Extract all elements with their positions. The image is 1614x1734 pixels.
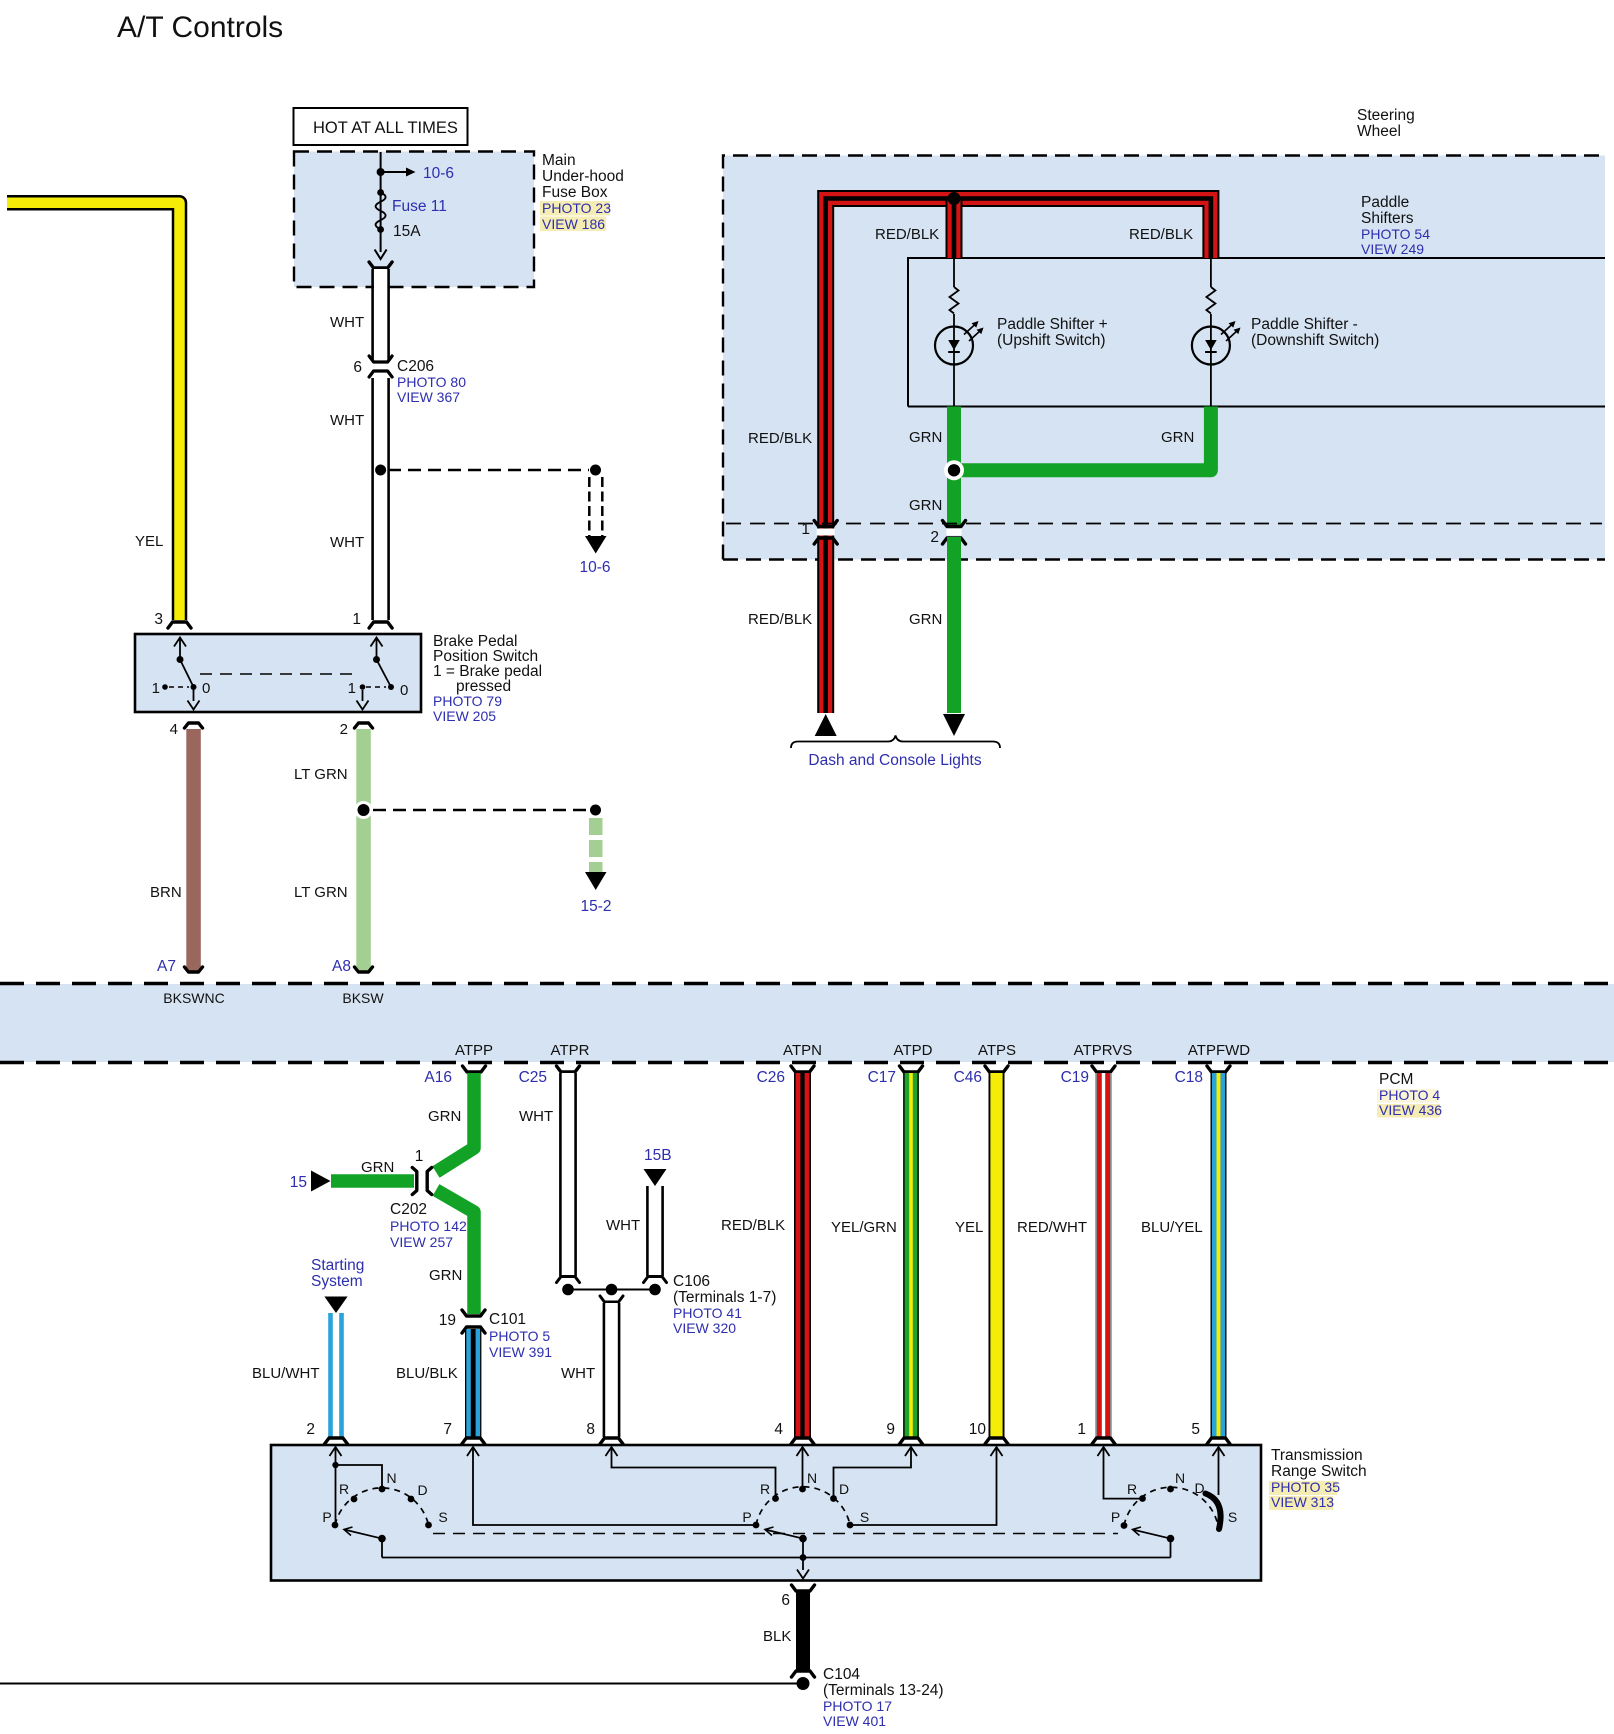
node C17 bracket [900, 1066, 923, 1072]
connector pin 1 on RED/BLK [817, 529, 835, 536]
wire GRN from upshift switch down [947, 407, 961, 528]
svg-text:4: 4 [774, 1421, 783, 1438]
wire BLU/BLK C101 to TRS pin 7 [465, 1329, 481, 1437]
svg-text:C106: C106 [673, 1273, 710, 1290]
svg-text:GRN: GRN [429, 1267, 462, 1284]
svg-text:Starting: Starting [311, 1257, 364, 1274]
off-page arrow down (GRN to dash lights) [943, 714, 965, 736]
svg-text:VIEW 313: VIEW 313 [1271, 1494, 1334, 1510]
svg-text:N: N [1175, 1470, 1185, 1486]
svg-text:7: 7 [443, 1421, 452, 1438]
svg-text:WHT: WHT [606, 1217, 640, 1234]
svg-text:ATPRVS: ATPRVS [1074, 1042, 1133, 1059]
svg-text:1: 1 [352, 611, 361, 628]
C25 wire end flare [557, 1277, 580, 1283]
node C19 bracket [1092, 1066, 1115, 1072]
svg-text:PHOTO 17: PHOTO 17 [823, 1698, 892, 1714]
dashed WHT branch down to 10-6 [588, 477, 591, 536]
common bus line [382, 1557, 1171, 1559]
svg-text:BLU/WHT: BLU/WHT [252, 1365, 320, 1382]
svg-text:VIEW 320: VIEW 320 [673, 1320, 736, 1336]
wire WHT C25 to C106 junction [562, 1073, 575, 1276]
svg-text:YEL: YEL [135, 533, 163, 550]
svg-text:5: 5 [1191, 1421, 1200, 1438]
svg-text:YEL: YEL [955, 1219, 983, 1236]
wire GRN from downshift switch down and left [958, 407, 1211, 471]
wire BRN pin4 to A7 [186, 729, 201, 971]
pin 8 entry arrow [606, 1447, 618, 1456]
svg-text:BLU/YEL: BLU/YEL [1141, 1219, 1203, 1236]
wire WHT fuse box to C206 [374, 269, 387, 361]
svg-text:9: 9 [886, 1421, 895, 1438]
svg-text:RED/BLK: RED/BLK [1129, 226, 1193, 243]
svg-text:(Downshift Switch): (Downshift Switch) [1251, 332, 1379, 349]
svg-text:VIEW 367: VIEW 367 [397, 389, 460, 405]
pin 4 end bracket [791, 1438, 814, 1444]
pin 3 end bracket [168, 622, 191, 628]
node C18 bracket [1207, 1066, 1230, 1072]
pin 4 bracket and label [185, 723, 203, 728]
svg-text:6: 6 [353, 359, 362, 376]
svg-text:BLK: BLK [763, 1628, 791, 1645]
light rays [1221, 324, 1238, 342]
svg-text:3: 3 [154, 611, 163, 628]
svg-text:4: 4 [170, 721, 178, 738]
node C25 bracket [557, 1066, 580, 1072]
steering wheel dashed box [723, 156, 1605, 560]
downshift resistor [1210, 258, 1212, 287]
svg-text:WHT: WHT [330, 534, 364, 551]
svg-text:VIEW 401: VIEW 401 [823, 1713, 886, 1729]
svg-text:Steering: Steering [1357, 107, 1415, 124]
svg-text:GRN: GRN [909, 497, 942, 514]
svg-text:D: D [839, 1481, 849, 1497]
svg-text:R: R [1127, 1481, 1137, 1497]
pin 7 end bracket [462, 1438, 485, 1444]
wire RED/BLK branch to upshift switch [946, 199, 963, 259]
wire WHT C106 to TRS pin 8 [600, 1296, 623, 1302]
svg-text:RED/WHT: RED/WHT [1017, 1219, 1087, 1236]
svg-text:1: 1 [348, 680, 356, 697]
svg-text:2: 2 [340, 721, 348, 738]
HOT AT ALL TIMES box [294, 108, 468, 145]
svg-text:WHT: WHT [519, 1108, 553, 1125]
svg-text:2: 2 [306, 1421, 315, 1438]
svg-text:A16: A16 [424, 1069, 452, 1086]
svg-text:C26: C26 [757, 1069, 785, 1086]
svg-text:A8: A8 [332, 958, 351, 975]
svg-text:BLU/BLK: BLU/BLK [396, 1365, 458, 1382]
node C46 bracket [985, 1066, 1008, 1072]
svg-text:RED/BLK: RED/BLK [875, 226, 939, 243]
svg-text:GRN: GRN [909, 611, 942, 628]
pin 10 end bracket [985, 1438, 1008, 1444]
A8 end bracket [355, 967, 373, 972]
svg-text:Fuse 11: Fuse 11 [392, 198, 447, 215]
svg-text:S: S [1228, 1509, 1237, 1525]
svg-text:1: 1 [1077, 1421, 1086, 1438]
svg-text:ATPFWD: ATPFWD [1188, 1042, 1250, 1059]
light rays [964, 324, 981, 342]
svg-text:1: 1 [415, 1148, 424, 1165]
svg-text:PHOTO 4: PHOTO 4 [1379, 1087, 1440, 1103]
svg-text:P: P [322, 1509, 331, 1525]
wire GRN from 15 to C202 [331, 1174, 414, 1188]
wire YEL/GRN C17 to TRS pin 9 [903, 1073, 919, 1437]
svg-text:D: D [417, 1482, 427, 1498]
svg-text:LT GRN: LT GRN [294, 766, 348, 783]
wire WHT C206 to brake switch pin 1 [374, 378, 387, 620]
svg-text:GRN: GRN [909, 429, 942, 446]
svg-text:VIEW 391: VIEW 391 [489, 1344, 552, 1360]
fuse box internal wire [380, 152, 382, 252]
off-page arrow from starting system [324, 1297, 347, 1314]
wire start bracket below fuse box [369, 262, 392, 268]
PCM band bottom dashed border [0, 1061, 1614, 1064]
svg-text:ATPR: ATPR [551, 1042, 590, 1059]
svg-text:(Terminals 13-24): (Terminals 13-24) [823, 1682, 944, 1699]
svg-text:15-2: 15-2 [580, 898, 611, 915]
svg-text:PCM: PCM [1379, 1071, 1413, 1088]
svg-text:BKSW: BKSW [342, 990, 384, 1006]
dashed LT GRN branch down to 15-2 [589, 818, 603, 835]
svg-text:P: P [1111, 1509, 1120, 1525]
svg-text:C17: C17 [868, 1069, 896, 1086]
node on LT GRN with dashed branch [355, 801, 373, 819]
svg-text:Paddle: Paddle [1361, 194, 1409, 211]
svg-text:GRN: GRN [361, 1159, 394, 1176]
svg-text:PHOTO 79: PHOTO 79 [433, 693, 502, 709]
15B wire end flare [644, 1277, 667, 1283]
svg-text:RED/BLK: RED/BLK [721, 1217, 785, 1234]
pin 9 entry arrow [905, 1447, 917, 1456]
node C104 [797, 1677, 810, 1690]
right switch thick blade (in S) [1206, 1494, 1221, 1530]
fuse F11 15A [377, 189, 384, 196]
wire RED/WHT C19 to TRS pin 1 [1096, 1073, 1112, 1437]
left switch: pin3 contact arrow [174, 638, 186, 647]
off-page arrow up (RED/BLK to dash lights) [815, 714, 837, 736]
svg-text:1: 1 [801, 521, 810, 538]
junction node on RED/BLK [948, 192, 961, 205]
connector C202 [412, 1168, 417, 1195]
svg-text:Fuse Box: Fuse Box [542, 184, 608, 201]
switch box middle dashed line [200, 673, 357, 675]
svg-text:BKSWNC: BKSWNC [163, 990, 224, 1006]
svg-text:VIEW 436: VIEW 436 [1379, 1102, 1442, 1118]
wire bus to C104 [0, 1683, 797, 1685]
svg-text:N: N [386, 1470, 396, 1486]
svg-text:ATPP: ATPP [455, 1042, 493, 1059]
svg-text:GRN: GRN [1161, 429, 1194, 446]
internal long dashed line [433, 1533, 1118, 1535]
node on WHT wire with dashed branch [375, 465, 386, 476]
svg-text:19: 19 [439, 1312, 456, 1329]
wire BLK pin6 to C104 [796, 1592, 810, 1670]
pin 7 entry arrow [467, 1447, 479, 1456]
right switch output arrow to pin 2 [362, 690, 364, 701]
svg-text:PHOTO 41: PHOTO 41 [673, 1305, 742, 1321]
svg-text:Paddle Shifter +: Paddle Shifter + [997, 316, 1108, 333]
svg-text:System: System [311, 1273, 363, 1290]
right switch blade [1167, 1535, 1175, 1543]
svg-text:Transmission: Transmission [1271, 1447, 1363, 1464]
middle common down to pin 6 [802, 1539, 804, 1570]
arrowhead down at fuse output [375, 250, 387, 260]
svg-text:R: R [339, 1481, 349, 1497]
svg-text:15: 15 [290, 1174, 307, 1191]
node A16 bracket [463, 1066, 486, 1072]
PCM band (full-width light blue) [0, 984, 1614, 1062]
node C26 bracket [791, 1066, 814, 1072]
svg-text:A/T Controls: A/T Controls [117, 11, 283, 44]
svg-text:N: N [807, 1470, 817, 1486]
svg-text:8: 8 [586, 1421, 595, 1438]
svg-text:C202: C202 [390, 1201, 427, 1218]
paddle shifters inner box [908, 258, 1605, 407]
steering wheel connector dashed line [726, 523, 1602, 525]
downshift switch lamp (Paddle Shifter -) [1192, 327, 1230, 365]
svg-text:PHOTO 23: PHOTO 23 [542, 200, 611, 216]
connector pin 2 on GRN [947, 529, 962, 536]
svg-text:VIEW 249: VIEW 249 [1361, 241, 1424, 257]
svg-text:Dash and Console Lights: Dash and Console Lights [808, 752, 981, 769]
svg-text:Under-hood: Under-hood [542, 168, 624, 185]
wire RED/BLK C26 to TRS pin 4 [794, 1073, 811, 1437]
pin 1 end bracket [369, 622, 392, 628]
svg-text:HOT AT ALL TIMES: HOT AT ALL TIMES [313, 119, 458, 137]
svg-text:C206: C206 [397, 358, 434, 375]
svg-text:WHT: WHT [330, 314, 364, 331]
svg-text:C25: C25 [519, 1069, 547, 1086]
svg-text:2: 2 [930, 529, 939, 546]
wire GRN A16 to C202 [436, 1073, 474, 1172]
middle switch blade [799, 1535, 807, 1543]
upshift resistor [953, 258, 955, 287]
wire BLU/WHT to TRS pin 2 [328, 1313, 333, 1437]
pin 8 end bracket [600, 1438, 623, 1444]
wire RED/BLK loop from dash lights up and over to both shifters [826, 199, 1211, 714]
arrow to 10-6 [381, 171, 406, 173]
svg-text:PHOTO 54: PHOTO 54 [1361, 226, 1430, 242]
off-page arrow 15 [311, 1171, 331, 1192]
svg-text:BRN: BRN [150, 884, 182, 901]
svg-text:VIEW 205: VIEW 205 [433, 708, 496, 724]
svg-text:ATPS: ATPS [978, 1042, 1016, 1059]
right switch contact 1 [360, 684, 366, 690]
svg-text:RED/BLK: RED/BLK [748, 430, 812, 447]
pin 10 entry arrow [991, 1447, 1003, 1456]
svg-text:P: P [742, 1509, 751, 1525]
main under-hood fuse box [294, 152, 534, 288]
svg-text:A7: A7 [157, 958, 176, 975]
wire YEL C46 to TRS pin 10 [989, 1073, 1005, 1437]
brace Dash and Console Lights [791, 736, 1000, 749]
wire WHT 15B to C106 junction [649, 1186, 662, 1276]
svg-text:C104: C104 [823, 1666, 860, 1683]
svg-text:C18: C18 [1175, 1069, 1203, 1086]
svg-text:(Upshift Switch): (Upshift Switch) [997, 332, 1106, 349]
svg-text:6: 6 [781, 1592, 790, 1609]
node: branch dot to 10-6 [377, 168, 385, 176]
right switch blade [377, 660, 392, 688]
svg-text:C101: C101 [489, 1311, 526, 1328]
pin 4 entry arrow [797, 1447, 809, 1456]
PCM band top dashed border [0, 982, 1614, 985]
connector C206 [369, 356, 392, 362]
svg-text:R: R [760, 1481, 770, 1497]
svg-text:Paddle Shifter -: Paddle Shifter - [1251, 316, 1358, 333]
wire to left switch N [336, 1465, 383, 1487]
pin 5 end bracket [1207, 1438, 1230, 1444]
svg-text:S: S [860, 1509, 869, 1525]
svg-text:PHOTO 142: PHOTO 142 [390, 1218, 467, 1234]
svg-text:PHOTO 5: PHOTO 5 [489, 1328, 550, 1344]
left switch blade [180, 660, 194, 688]
A7 end bracket [185, 967, 203, 972]
svg-text:(Terminals 1-7): (Terminals 1-7) [673, 1289, 776, 1306]
svg-text:GRN: GRN [428, 1108, 461, 1125]
wire GRN lower segment to dash lights [947, 537, 961, 713]
pin 9 end bracket [900, 1438, 923, 1444]
pin 5 entry arrow [1213, 1447, 1225, 1456]
svg-text:Shifters: Shifters [1361, 210, 1414, 227]
svg-text:10-6: 10-6 [579, 559, 610, 576]
svg-text:S: S [438, 1509, 447, 1525]
C106 junction line with three nodes [568, 1289, 655, 1291]
svg-text:C19: C19 [1061, 1069, 1089, 1086]
svg-text:10: 10 [969, 1421, 987, 1438]
right rotary switch [1124, 1487, 1218, 1525]
C104 end bracket [792, 1671, 815, 1677]
pin 2 entry arrow [330, 1447, 342, 1456]
svg-text:YEL/GRN: YEL/GRN [831, 1219, 897, 1236]
left switch blade [378, 1535, 386, 1543]
pin 1 end bracket [1092, 1438, 1115, 1444]
svg-text:PHOTO 35: PHOTO 35 [1271, 1479, 1340, 1495]
svg-text:ATPD: ATPD [894, 1042, 933, 1059]
svg-text:VIEW 257: VIEW 257 [390, 1234, 453, 1250]
svg-text:LT GRN: LT GRN [294, 884, 348, 901]
svg-text:VIEW 186: VIEW 186 [542, 216, 605, 232]
middle rotary switch [756, 1487, 850, 1525]
svg-text:RED/BLK: RED/BLK [748, 611, 812, 628]
svg-text:PHOTO 80: PHOTO 80 [397, 374, 466, 390]
svg-text:1: 1 [152, 680, 160, 697]
right switch: pin1 contact arrow [371, 638, 383, 647]
svg-text:0: 0 [202, 680, 210, 697]
wire YEL from left edge to brake switch pin 3 [7, 203, 180, 620]
wire LT GRN pin2 to A8 [356, 729, 371, 971]
left switch output arrow to pin 4 [193, 687, 195, 701]
svg-text:Main: Main [542, 152, 576, 169]
pin 2 end bracket [325, 1438, 348, 1444]
svg-text:C46: C46 [954, 1069, 982, 1086]
Transmission Range Switch box [271, 1445, 1261, 1581]
left switch contact 1 [162, 684, 168, 690]
pin 6 bracket below box [792, 1585, 815, 1591]
svg-text:ATPN: ATPN [783, 1042, 822, 1059]
svg-text:WHT: WHT [561, 1365, 595, 1382]
svg-text:Range Switch: Range Switch [1271, 1463, 1367, 1480]
svg-text:WHT: WHT [330, 412, 364, 429]
pin 1 entry arrow [1098, 1447, 1110, 1456]
left rotary switch [335, 1488, 429, 1525]
junction node GRN [944, 460, 964, 480]
svg-text:Wheel: Wheel [1357, 123, 1401, 140]
svg-text:15A: 15A [393, 223, 421, 240]
pin 2 bracket and label [355, 723, 373, 728]
upshift switch lamp (Paddle Shifter +) [935, 327, 973, 365]
wire GRN C202 to C101 [436, 1190, 474, 1314]
connector C101 [462, 1310, 485, 1316]
svg-text:10-6: 10-6 [423, 165, 454, 182]
Brake Pedal Position Switch box [135, 634, 421, 712]
svg-text:0: 0 [400, 682, 408, 699]
svg-text:15B: 15B [644, 1147, 672, 1164]
wire BLU/YEL C18 to TRS pin 5 [1211, 1073, 1227, 1437]
